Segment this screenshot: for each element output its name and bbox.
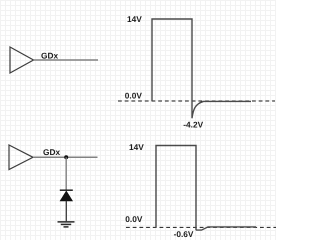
buffer U2 (bottom driver)	[9, 145, 33, 170]
node 0V reference line (bottom waveform, dashed)	[126, 226, 276, 228]
svg-text:GDx: GDx	[43, 147, 60, 157]
diode D1 cathode bar	[60, 189, 73, 191]
node 0V reference line (top waveform, dashed)	[118, 100, 275, 102]
wire to diode	[65, 157, 67, 190]
svg-text:14V: 14V	[129, 142, 144, 152]
svg-text:-0.6V: -0.6V	[174, 229, 194, 239]
svg-text:0.0V: 0.0V	[125, 214, 143, 224]
wire net GDx (bottom output)	[33, 156, 98, 158]
waveform trace (bottom, -0.6V undershoot)	[156, 146, 256, 231]
svg-text:0.0V: 0.0V	[125, 91, 143, 101]
ground	[58, 222, 75, 227]
waveform trace (top, -4.2V undershoot)	[152, 19, 251, 118]
junction dot	[64, 155, 68, 159]
wire diode to ground	[65, 201, 67, 222]
svg-text:GDx: GDx	[41, 51, 58, 61]
wire net GDx (top output)	[34, 59, 99, 61]
svg-text:14V: 14V	[127, 14, 142, 24]
diode D1 body	[60, 191, 72, 201]
buffer U1 (top driver)	[10, 47, 34, 73]
svg-text:-4.2V: -4.2V	[183, 119, 203, 129]
